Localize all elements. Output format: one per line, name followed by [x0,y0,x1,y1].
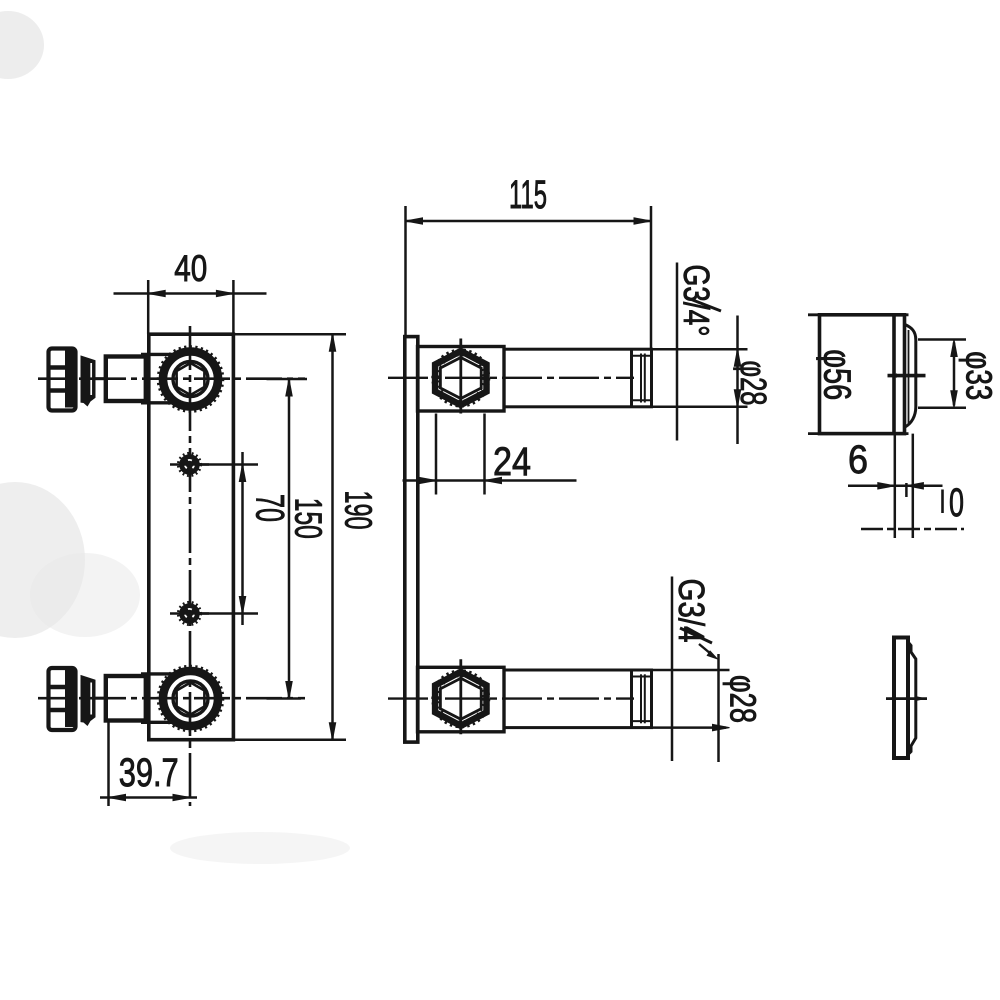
svg-text:190: 190 [337,491,379,530]
svg-text:0: 0 [949,481,964,525]
svg-text:6: 6 [848,438,868,482]
svg-text:φ28: φ28 [733,361,774,406]
svg-text:39.7: 39.7 [119,751,179,795]
svg-text:24: 24 [493,440,531,484]
svg-text:φ28: φ28 [723,675,764,723]
svg-text:φ56: φ56 [816,349,858,400]
svg-text:40: 40 [174,248,207,289]
svg-text:φ33: φ33 [959,351,1000,400]
svg-text:115: 115 [509,173,547,217]
svg-text:150: 150 [287,498,329,539]
svg-text:70: 70 [248,494,292,522]
